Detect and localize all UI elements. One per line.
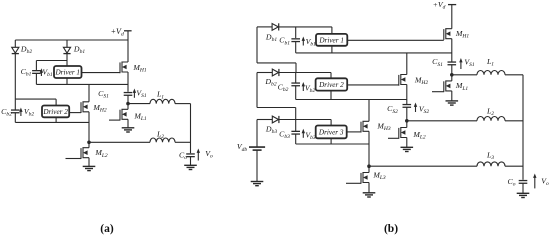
label Cb1 (a) [21,67,32,78]
svg-text:Driver 3: Driver 3 [318,128,344,136]
wire driver1 top stub (b) [331,27,333,34]
wire driver1 output (a) [82,72,121,74]
wire MH1 source to CS1 (a) [127,72,129,92]
diode Db3 (b) [272,116,279,123]
label Db2 (a) [20,44,32,55]
label Cb3 (b) [279,129,290,140]
label Vdb (b) [237,142,248,153]
wire cell3 bottom edge (b) [296,143,369,145]
wire +Vd rail (a) [15,39,128,41]
node switch node 1 (a) [126,102,130,106]
label L2 (a) [156,129,164,140]
wire ML2 source (b) [406,138,408,148]
wire Co to ground (b) [522,183,524,193]
capacitor Cb2 (a) [11,99,20,122]
label Vb2 (b) [305,84,316,95]
inductor L1 (a) [128,99,191,103]
wire ML1 source (a) [127,119,129,128]
wire driver3 top stub (b) [330,120,332,126]
label Db1 (a) [73,44,85,55]
label Vb2 (a) [24,107,35,118]
label MH1 (a) [132,63,146,74]
diode Db1 (a) [63,40,70,66]
label CS2 (b) [387,104,398,115]
capacitor Cb2 (b) [291,73,300,100]
battery Vdb (b) [249,147,265,150]
label ML1 (a) [133,112,147,123]
label VS1 (b) [464,58,475,69]
label Co (a) [179,150,187,161]
wire segment B bootstrap chain (b) [257,73,296,120]
caption (a) [100,223,114,235]
voltage Vb2 arrow (a) [19,108,22,117]
wire cell2 bottom edge (b) [296,99,407,101]
wire MH2 drain stub (b) [406,53,408,75]
label MH1 (b) [455,29,469,40]
label Db2 (b) [264,77,276,88]
svg-text:Driver 2: Driver 2 [42,108,68,116]
voltage Vb2 arrow (b) [302,82,305,91]
wire driver1 output (b) [347,39,444,41]
driver U2 (b) [316,78,348,99]
wire cell1 bottom edge (b) [296,52,452,54]
svg-text:(a): (a) [100,223,114,235]
voltage Vb3 arrow (b) [302,129,305,138]
inductor L2 (b) [407,117,523,121]
diode Db2 (b) [272,69,279,76]
label CS1 (b) [432,57,443,68]
wire Vdb to ground (b) [256,150,258,181]
label Vb1 (a) [42,67,53,78]
wire Db3 anode row (b) [257,119,331,121]
label Vb1 (b) [306,37,317,48]
ground Co (a) [184,165,197,169]
node switch node 2 (b) [405,119,409,123]
label ML2 (a) [94,148,108,159]
wire MH1 source to CS1 (b) [451,39,453,63]
wire output rail (b) [522,75,524,180]
voltage VS1 arrow (a) [133,89,136,98]
inductor L2 (a) [89,138,191,142]
transistor MH2 (a) [81,84,89,142]
transistor ML2 (b) [388,121,407,139]
capacitor Co (b) [519,181,528,184]
label ML2 (b) [412,130,426,141]
wire cell2 bottom edge (a) [15,121,89,123]
label L2 (b) [486,107,494,118]
wire output rail (a) [190,104,192,154]
wire segment A bootstrap chain (b) [257,27,296,73]
ground ML1 (a) [122,128,135,132]
capacitor CS1 (b) [448,62,457,65]
svg-text:Driver 1: Driver 1 [318,36,344,44]
driver U1 (b) [316,34,347,53]
label Cb2 (b) [278,82,289,93]
diode Db1 (b) [272,23,279,30]
voltage Vb1 arrow (b) [302,37,305,46]
transistor ML2 (a) [66,142,90,159]
label ML3 (b) [372,170,386,181]
label L3 (b) [486,150,494,161]
label L1 (b) [486,57,494,68]
label MH2 (b) [414,76,428,87]
svg-text:Driver 2: Driver 2 [318,81,344,89]
ground Co (b) [517,193,530,197]
supply +Vd terminal (a) [111,27,132,40]
label Cb1 (b) [279,36,290,47]
driver U2 (a) [42,106,69,123]
transistor MH2 (b) [399,75,407,86]
ground ML1 (b) [446,101,459,105]
label VS1 (a) [136,89,147,100]
voltage VS2 arrow (b) [414,103,417,113]
wire driver2 output (a) [69,112,81,114]
label MH3 (b) [376,121,390,132]
wire ML1 source (b) [451,91,453,101]
label Db1 (b) [265,32,277,43]
label L1 (a) [156,90,164,101]
wire Cb1 top edge (a) [36,60,67,62]
wire Db1 anode row (b) [257,26,332,28]
wire Db2 anode row (b) [257,72,331,74]
transistor ML1 (a) [109,104,128,121]
diode Db2 (a) [12,40,19,99]
voltage Vo arrow (a) [197,149,200,161]
transistor MH1 (b) [444,29,452,40]
label Co (b) [508,177,516,188]
driver U1 (a) [54,66,82,84]
ground ML3 (b) [363,193,376,197]
transistor ML1 (b) [432,75,452,92]
voltage VS1 arrow (b) [459,58,462,69]
voltage Vb1 arrow (a) [40,68,43,76]
wire cell1 bottom edge (a) [36,83,128,85]
wire Vdb rail (b) [256,120,258,148]
label VS2 (b) [419,105,430,116]
capacitor Cb1 (a) [32,61,41,85]
label Vo (b) [541,177,549,188]
wire cell2 top edge (a) [15,99,56,105]
wire Co to ground (a) [190,156,192,165]
label ML1 (b) [455,81,469,92]
wire ML2 source (a) [88,158,90,167]
caption (b) [384,223,398,235]
svg-text:(b): (b) [384,223,398,235]
wire CS1 to switch node 1 (b) [451,65,453,75]
capacitor Co (a) [186,154,195,157]
label MH2 (a) [92,103,106,114]
wire ML3 source (b) [368,183,370,193]
voltage Vo arrow (b) [533,174,536,189]
inductor L1 (b) [452,71,523,75]
wire driver3 output (b) [347,131,361,133]
label Vb3 (b) [305,130,316,141]
node switch node 2 (a) [87,141,91,145]
capacitor Cb1 (b) [291,27,300,53]
supply +Vd terminal (b) [433,0,457,29]
wire MH2 source to CS2 (b) [406,85,408,105]
wire driver2 top stub (b) [330,73,332,79]
driver U3 (b) [316,126,347,145]
wire CS2 to switch node 2 (b) [406,107,408,121]
capacitor CS1 (a) [124,93,133,96]
label CS1 (a) [98,89,109,100]
wire driver2 output (b) [347,84,399,86]
transistor MH3 (b) [361,121,369,132]
capacitor CS2 (b) [403,105,412,108]
wire MH3 source to switch node 3 (b) [368,131,370,166]
node switch node 1 (b) [450,73,454,77]
wire CS1 to switch node 1 (a) [127,96,129,104]
node switch node 3 (b) [367,164,371,168]
wire MH3 drain stub (b) [368,100,370,122]
svg-text:Driver 1: Driver 1 [54,69,80,77]
capacitor Cb3 (b) [291,120,300,145]
inductor L3 (b) [369,162,523,166]
ground ML2 (a) [83,166,96,170]
ground ML2 (b) [401,147,414,151]
ground Vdb (b) [251,182,264,186]
transistor MH1 (a) [120,40,128,73]
label Vo (a) [205,149,213,160]
transistor ML3 (b) [346,166,369,184]
label Cb2 (a) [1,107,12,118]
label Db3 (b) [265,124,277,135]
